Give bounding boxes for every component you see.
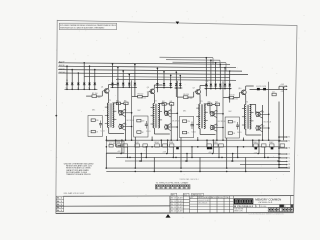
wire cell 3 rail tie 4 bbox=[206, 140, 208, 147]
wire Q4 collector bbox=[153, 85, 155, 89]
svg-text:JMc 5-9: JMc 5-9 bbox=[171, 201, 177, 203]
svg-text:T4: T4 bbox=[246, 102, 248, 104]
resistor R15 bbox=[228, 132, 232, 135]
capacitor C1 bbox=[99, 123, 102, 125]
resistor RB12 bbox=[262, 144, 267, 147]
wire Q9 collector tie bbox=[214, 124, 217, 126]
wire bus line 3 bbox=[58, 70, 242, 72]
svg-text:Q10: Q10 bbox=[238, 88, 241, 90]
diode D13 bbox=[163, 83, 166, 85]
wire drop B3 bbox=[122, 71, 124, 87]
svg-text:D7: D7 bbox=[117, 79, 119, 81]
wire drop C3 bbox=[205, 58, 207, 89]
svg-text:R9 150: R9 150 bbox=[183, 94, 189, 96]
wire drop B5 bbox=[134, 64, 136, 87]
diode D22 bbox=[257, 88, 260, 90]
resistor R14 bbox=[228, 120, 232, 123]
svg-text:J2: J2 bbox=[288, 154, 290, 156]
wire rail 6 bbox=[240, 163, 281, 165]
footer strip top line bbox=[64, 195, 170, 197]
wire R1 to base bbox=[97, 95, 103, 97]
svg-text:DEC 2894-1B: DEC 2894-1B bbox=[126, 120, 134, 122]
svg-text:+10V: +10V bbox=[163, 151, 167, 153]
junction dots rails bbox=[106, 139, 279, 172]
svg-text:R34: R34 bbox=[155, 142, 159, 144]
wire Q7 collector bbox=[199, 86, 201, 90]
wire drop A2 bbox=[71, 70, 73, 90]
svg-text:Q1: Q1 bbox=[101, 87, 103, 89]
wire drop A6 bbox=[94, 70, 96, 90]
wire Q3 emitter tie bbox=[123, 129, 126, 131]
svg-text:E1: E1 bbox=[288, 137, 290, 139]
svg-text:A-1: A-1 bbox=[57, 197, 63, 200]
svg-text:+10V: +10V bbox=[281, 84, 285, 86]
resistor RB1 bbox=[116, 144, 121, 147]
svg-text:DRILL CHART 4-CYL NO. 10-3617: DRILL CHART 4-CYL NO. 10-3617 bbox=[64, 192, 85, 195]
resistor RB5 bbox=[155, 144, 160, 147]
svg-text:R2 100: R2 100 bbox=[96, 97, 101, 99]
wire T1 tap 5 bbox=[113, 118, 117, 120]
svg-text:N2: N2 bbox=[288, 167, 290, 169]
diode DB3 bbox=[255, 147, 258, 149]
wire inter-cell feed cell 3 bbox=[222, 81, 224, 140]
svg-text:1K: 1K bbox=[187, 132, 189, 134]
wire staircase feeder 2 bbox=[166, 59, 220, 62]
resistor RB3 bbox=[135, 144, 140, 147]
resistor R9 bbox=[183, 96, 188, 99]
wire drop C4 bbox=[210, 60, 212, 88]
resistor RB7 bbox=[169, 144, 174, 147]
title block approval columns bbox=[170, 196, 190, 213]
svg-text:M1: M1 bbox=[288, 164, 290, 166]
wire staircase feeder 1 bbox=[160, 56, 214, 59]
wire rail 5 bbox=[125, 160, 281, 162]
wire Q3 base feed bbox=[123, 126, 131, 128]
transformer T1 bbox=[107, 103, 114, 128]
wire cell 1 rail tie 1 bbox=[121, 140, 123, 153]
wire drop C1 bbox=[175, 72, 177, 88]
svg-text:R10 100: R10 100 bbox=[187, 98, 193, 100]
code ident cell bbox=[280, 205, 284, 208]
wire cell 3 drop2 bbox=[197, 137, 199, 140]
wire Q9 base feed bbox=[215, 127, 223, 129]
transistor Q8 bbox=[210, 111, 214, 116]
wire Q12 collector tie bbox=[260, 124, 263, 126]
wire cell4 right feed vertical bbox=[283, 88, 285, 140]
wire stub L2 bbox=[279, 160, 286, 162]
wire drop A4 bbox=[83, 63, 85, 90]
diode D6 bbox=[94, 83, 97, 85]
svg-text:G100 ETCH BD: G100 ETCH BD bbox=[198, 200, 210, 202]
wire Q10 emitter to T4 bbox=[245, 95, 247, 105]
transistor Q11 bbox=[256, 112, 260, 117]
svg-text:C-CS-G100-0-1 MEM COMMON: C-CS-G100-0-1 MEM COMMON bbox=[249, 214, 285, 216]
capacitor C2 bbox=[145, 123, 148, 125]
wire cell 3 drop to rails bbox=[180, 138, 182, 169]
wire cell 2 rail tie 1 bbox=[167, 140, 169, 153]
wire T3 top tap bbox=[204, 103, 210, 105]
wire stub M1 bbox=[279, 164, 286, 166]
diode D21 bbox=[228, 84, 231, 86]
svg-text:TWISTED PAIR - SEE NOTE 4: TWISTED PAIR - SEE NOTE 4 bbox=[180, 178, 199, 181]
sheet border bbox=[56, 20, 297, 213]
resistor RB2 bbox=[123, 144, 128, 147]
wire rail 2 bbox=[116, 146, 281, 148]
wire diode rail B2 bbox=[156, 87, 173, 89]
wire Q8 emitter tie bbox=[214, 116, 217, 118]
distribution squares bbox=[268, 208, 293, 212]
wire T1 tap 3 bbox=[105, 123, 109, 125]
svg-text:R20 1K: R20 1K bbox=[109, 143, 115, 145]
svg-text:D16: D16 bbox=[206, 87, 209, 89]
wire drop B7 bbox=[163, 72, 165, 88]
wire Q6 collector tie bbox=[168, 123, 171, 125]
fiducial triangle top bbox=[176, 22, 180, 25]
diode D7 bbox=[111, 83, 114, 85]
resistor RB13 bbox=[270, 144, 275, 147]
svg-text:R14 100: R14 100 bbox=[232, 98, 238, 100]
wire T1 secondary bottom bbox=[108, 128, 110, 134]
resistor R11 bbox=[183, 131, 187, 134]
svg-text:4-69: 4-69 bbox=[178, 207, 183, 209]
resistor R5B bbox=[124, 102, 128, 105]
wire T4 tap 1 bbox=[242, 108, 246, 110]
svg-text:D1: D1 bbox=[66, 87, 68, 89]
diode D12 bbox=[156, 83, 159, 85]
diode D2 bbox=[71, 83, 74, 85]
svg-text:D22 D23: D22 D23 bbox=[257, 86, 267, 88]
resistor R10 bbox=[183, 120, 187, 123]
resistor R9B bbox=[170, 103, 174, 106]
wire stub H1 bbox=[279, 147, 286, 149]
wire stub F2 bbox=[279, 140, 286, 142]
svg-text:T2: T2 bbox=[155, 101, 157, 103]
transformer T2 bbox=[153, 103, 160, 128]
diode group labels bbox=[66, 84, 223, 90]
wire rail 1 bbox=[106, 139, 281, 141]
svg-text:A-1: A-1 bbox=[57, 200, 63, 203]
wire drop C6 bbox=[219, 64, 221, 88]
wire T2 top tap bbox=[158, 102, 164, 104]
transistor Q5 bbox=[165, 111, 169, 116]
svg-text:R5 150: R5 150 bbox=[138, 94, 144, 96]
diode D14 bbox=[175, 83, 178, 85]
transistor Q2 bbox=[119, 110, 123, 115]
wire T3 tap 3 bbox=[196, 124, 200, 126]
wire Q11 collector tie bbox=[260, 111, 263, 113]
wire drop below rail B1 left bbox=[117, 87, 119, 101]
wire Q6 emitter tie bbox=[168, 129, 171, 131]
svg-text:C2 .01: C2 .01 bbox=[146, 131, 151, 133]
wire T4 tap 5 bbox=[250, 120, 254, 122]
diode D10 bbox=[128, 83, 131, 85]
wire drop A1 bbox=[66, 66, 68, 89]
wire T3 tap 5 bbox=[204, 119, 208, 121]
svg-text:R42: R42 bbox=[269, 142, 273, 144]
wire left loop box cell 3 bbox=[179, 117, 193, 138]
svg-text:D1: D1 bbox=[66, 80, 68, 82]
svg-text:JMc 5-9: JMc 5-9 bbox=[171, 198, 177, 200]
wire stub E1 bbox=[279, 136, 286, 138]
resistor R9A bbox=[162, 103, 166, 106]
svg-text:SHEET 1 OF 1: SHEET 1 OF 1 bbox=[234, 211, 243, 213]
wire T3 tap 2 bbox=[196, 115, 200, 117]
wire Q12 base feed bbox=[260, 127, 268, 129]
note box bbox=[59, 23, 116, 29]
svg-text:4-69: 4-69 bbox=[178, 204, 183, 206]
svg-text:220: 220 bbox=[233, 121, 236, 123]
diode D9 bbox=[122, 83, 125, 85]
svg-text:DEC 2894-1B: DEC 2894-1B bbox=[198, 203, 207, 205]
diode DB2 bbox=[210, 147, 213, 149]
diode DB5 bbox=[176, 147, 179, 149]
wire rail 3 bbox=[106, 153, 281, 155]
wire inter-cell feed cell 4 bbox=[268, 82, 270, 140]
svg-text:4-69: 4-69 bbox=[178, 210, 183, 212]
svg-text:G100 0-1: G100 0-1 bbox=[259, 202, 274, 204]
transistor Q10 bbox=[240, 90, 246, 95]
svg-text:RESISTORS ARE 1/4W; 10%; CAPAC: RESISTORS ARE 1/4W; 10%; CAPACITOR VALUE… bbox=[60, 27, 104, 30]
revision corner block bbox=[56, 196, 63, 212]
wire drop A3 bbox=[77, 73, 79, 89]
svg-text:TRANSISTORS ARE 2894-1B: TRANSISTORS ARE 2894-1B bbox=[66, 173, 91, 176]
wire cell 4 rail tie 3 bbox=[232, 154, 234, 162]
wire Q5 emitter tie bbox=[168, 116, 171, 118]
svg-text:D3: D3 bbox=[78, 88, 80, 90]
wire T1 tap 2 bbox=[105, 114, 109, 116]
diode D19 bbox=[219, 84, 222, 86]
svg-text:R1 150: R1 150 bbox=[92, 93, 98, 95]
wire Q3 collector tie bbox=[123, 123, 126, 125]
resistor R13 bbox=[229, 96, 234, 99]
wire cell 1 rail tie 5 bbox=[127, 147, 129, 158]
wire stub +10V bbox=[279, 85, 286, 87]
svg-text:R30: R30 bbox=[116, 142, 120, 144]
svg-text:R46: R46 bbox=[170, 101, 173, 103]
wire inter-cell feed cell 1 bbox=[131, 80, 133, 140]
diode D18 bbox=[214, 84, 217, 86]
wire cell 1 right vertical bbox=[125, 104, 127, 141]
svg-text:R43: R43 bbox=[208, 102, 211, 104]
diode DB4 bbox=[271, 147, 274, 149]
svg-text:1K: 1K bbox=[96, 131, 98, 133]
wire stub N2 bbox=[279, 167, 286, 169]
svg-text:Q12: Q12 bbox=[261, 126, 264, 128]
transistor Q12 bbox=[256, 125, 260, 130]
svg-text:Q7: Q7 bbox=[193, 88, 195, 90]
capacitor C23 box bbox=[272, 93, 276, 96]
capacitor C3 bbox=[191, 124, 194, 126]
svg-text:1K: 1K bbox=[142, 132, 144, 134]
svg-text:R6 100: R6 100 bbox=[141, 97, 146, 99]
wire cell4 feed bbox=[250, 88, 280, 90]
wire R5 to base bbox=[142, 96, 148, 98]
svg-text:220: 220 bbox=[96, 120, 99, 122]
resistor RB9 bbox=[214, 144, 219, 147]
svg-text:K1: K1 bbox=[288, 158, 290, 160]
svg-text:D7: D7 bbox=[117, 84, 119, 86]
svg-text:R47: R47 bbox=[215, 102, 218, 104]
resistor RB11 bbox=[254, 144, 259, 147]
title block outline bbox=[170, 196, 294, 213]
speck on left border bbox=[55, 115, 57, 117]
wire T4 tap 3 bbox=[242, 124, 246, 126]
resistance chart table bbox=[155, 185, 190, 189]
footer strip bottom line bbox=[56, 205, 170, 207]
wire R9A link bbox=[166, 103, 169, 105]
svg-text:L2: L2 bbox=[288, 161, 290, 163]
resistor R20 bbox=[109, 145, 113, 148]
wire left loop box cell 4 bbox=[225, 117, 239, 138]
diode D23 bbox=[263, 88, 266, 90]
svg-text:MEMORY COMMON: MEMORY COMMON bbox=[255, 197, 281, 201]
resistor RB4 bbox=[143, 144, 148, 147]
svg-text:4-69: 4-69 bbox=[178, 198, 183, 200]
wire drop C5 bbox=[215, 63, 217, 89]
svg-text:C4 .01: C4 .01 bbox=[237, 132, 242, 134]
wire Q1 emitter to T1 bbox=[108, 93, 110, 103]
title block parts table bbox=[190, 196, 234, 213]
wire left loop box cell 2 bbox=[134, 116, 148, 137]
svg-text:220: 220 bbox=[142, 120, 145, 122]
wire drop B6 bbox=[156, 68, 158, 87]
wire cell 4 rail tie 6 bbox=[245, 157, 247, 171]
svg-text:R32: R32 bbox=[135, 142, 139, 144]
wire Q4 emitter to T2 bbox=[153, 94, 155, 104]
transistor Q4 bbox=[149, 89, 155, 94]
diode D14 bbox=[169, 83, 172, 85]
svg-text:JMc 5-9: JMc 5-9 bbox=[171, 204, 177, 206]
fiducial triangle bottom bbox=[166, 214, 171, 218]
svg-text:+10V: +10V bbox=[254, 152, 258, 154]
wire Q1 collector bbox=[108, 85, 110, 89]
wire T2 secondary bottom bbox=[153, 128, 155, 134]
diode D11 bbox=[134, 83, 137, 85]
resistor R2 bbox=[91, 119, 95, 122]
wire T4 secondary bottom bbox=[245, 129, 247, 135]
wire drop A5 bbox=[89, 66, 91, 89]
wire left loop box cell 1 bbox=[88, 116, 102, 137]
svg-text:+10V: +10V bbox=[117, 151, 121, 153]
wire cell 2 rail tie 5 bbox=[172, 147, 174, 158]
svg-text:A-1: A-1 bbox=[57, 203, 63, 206]
transistor Q9 bbox=[210, 125, 214, 130]
wire cell 4 drop to rails bbox=[226, 138, 228, 168]
wire bus line 2 bbox=[58, 66, 236, 68]
svg-text:220: 220 bbox=[187, 121, 190, 123]
wire R13 to base bbox=[234, 97, 240, 99]
wire T4 tap 2 bbox=[242, 116, 246, 118]
wire inter-cell link 2 bbox=[116, 79, 236, 80]
wire staircase feeder 3 bbox=[173, 61, 227, 64]
wire T3 tap 1 bbox=[196, 107, 200, 109]
wire cell 4 rail tie 2 bbox=[237, 147, 239, 158]
svg-text:R42: R42 bbox=[162, 101, 165, 103]
wire cell 3 rail tie 5 bbox=[218, 147, 220, 158]
wire inter-cell feed cell 2 bbox=[176, 81, 178, 140]
svg-text:H1: H1 bbox=[288, 148, 290, 150]
wire diode rail B1 bbox=[111, 86, 138, 88]
wire Q6 base feed bbox=[169, 126, 177, 128]
resistor R13B bbox=[215, 103, 219, 106]
wire Q2 collector tie bbox=[123, 109, 126, 111]
wire cell 2 rail tie 6 bbox=[153, 157, 155, 171]
wire R5A link bbox=[121, 102, 124, 104]
svg-text:DEC 2894-1B: DEC 2894-1B bbox=[264, 122, 272, 124]
wire cell 4 rail tie 5 bbox=[264, 147, 266, 158]
svg-text:DEC 2894-1B: DEC 2894-1B bbox=[218, 121, 226, 123]
wire cell 2 drop to rails bbox=[134, 137, 136, 168]
wire T4 tap 4 bbox=[250, 112, 254, 114]
wire rail 4 bbox=[116, 156, 281, 158]
svg-text:Q4: Q4 bbox=[147, 87, 149, 89]
svg-text:JMc 5-9: JMc 5-9 bbox=[171, 210, 177, 212]
wire cell 4 drop2 bbox=[243, 138, 245, 141]
rev cell right bbox=[291, 205, 293, 208]
logo digital bbox=[234, 198, 253, 204]
wire drop B2 bbox=[117, 67, 119, 87]
resistor RB8 bbox=[207, 144, 212, 147]
wire drop B8 bbox=[170, 75, 172, 87]
capacitor C4 bbox=[236, 124, 239, 126]
sheet bottom edge shadow bbox=[56, 212, 294, 215]
svg-text:R45: R45 bbox=[124, 101, 127, 103]
wire drop B1 bbox=[112, 64, 114, 87]
wire cell 2 right vertical bbox=[170, 104, 172, 140]
resistor RB14 bbox=[280, 144, 285, 147]
diode D17 bbox=[210, 84, 213, 86]
svg-text:NOTE: UNLESS OTHERWISE SPECIFI: NOTE: UNLESS OTHERWISE SPECIFIED ALL DIO… bbox=[60, 24, 116, 27]
svg-text:D5: D5 bbox=[88, 87, 90, 89]
footer cell 2 bbox=[183, 193, 189, 196]
wire bus line 4 bbox=[58, 73, 248, 75]
wire cell4 vertical bbox=[278, 86, 280, 89]
wire R9 to base bbox=[188, 96, 194, 98]
wire cell 1 drop2 bbox=[105, 136, 107, 140]
svg-text:DEC 2894-1B: DEC 2894-1B bbox=[172, 121, 180, 123]
wire cell 4 right vertical bbox=[262, 105, 264, 140]
resistor R7 bbox=[137, 131, 141, 134]
wire diode rail A bbox=[65, 88, 98, 90]
wire T1 tap 1 bbox=[105, 106, 109, 108]
wire Q2 emitter tie bbox=[123, 115, 126, 117]
svg-text:B02 E: B02 E bbox=[59, 65, 65, 67]
wire R13A link bbox=[212, 103, 215, 105]
wire cell 2 rail tie 2 bbox=[145, 147, 147, 158]
title block bottom strip bbox=[234, 207, 294, 212]
wire T4 top tap bbox=[250, 103, 256, 105]
footer cell 3 bbox=[192, 193, 204, 196]
wire stub K1 bbox=[279, 157, 286, 159]
wire T1 tap 4 bbox=[113, 110, 117, 112]
wire T1 top tap bbox=[113, 102, 119, 104]
svg-text:4-69: 4-69 bbox=[178, 201, 183, 203]
diode D3 bbox=[77, 83, 80, 85]
wire cell 2 drop2 bbox=[151, 137, 153, 141]
svg-text:T1 THRU T4 PRI. RES. CHART: T1 THRU T4 PRI. RES. CHART bbox=[156, 181, 190, 184]
wire Q5 base feed bbox=[169, 112, 177, 114]
wire T3 secondary bottom bbox=[199, 129, 201, 135]
diode D4 bbox=[83, 83, 86, 85]
resistor R13A bbox=[208, 103, 212, 106]
diode D1 bbox=[66, 83, 69, 85]
svg-text:D14: D14 bbox=[175, 86, 178, 88]
wire T2 tap 4 bbox=[158, 111, 162, 113]
diode DB1 bbox=[207, 147, 210, 149]
wire Q8 base feed bbox=[215, 113, 223, 115]
notes block bbox=[64, 162, 94, 176]
wire Q9 emitter tie bbox=[214, 130, 217, 132]
